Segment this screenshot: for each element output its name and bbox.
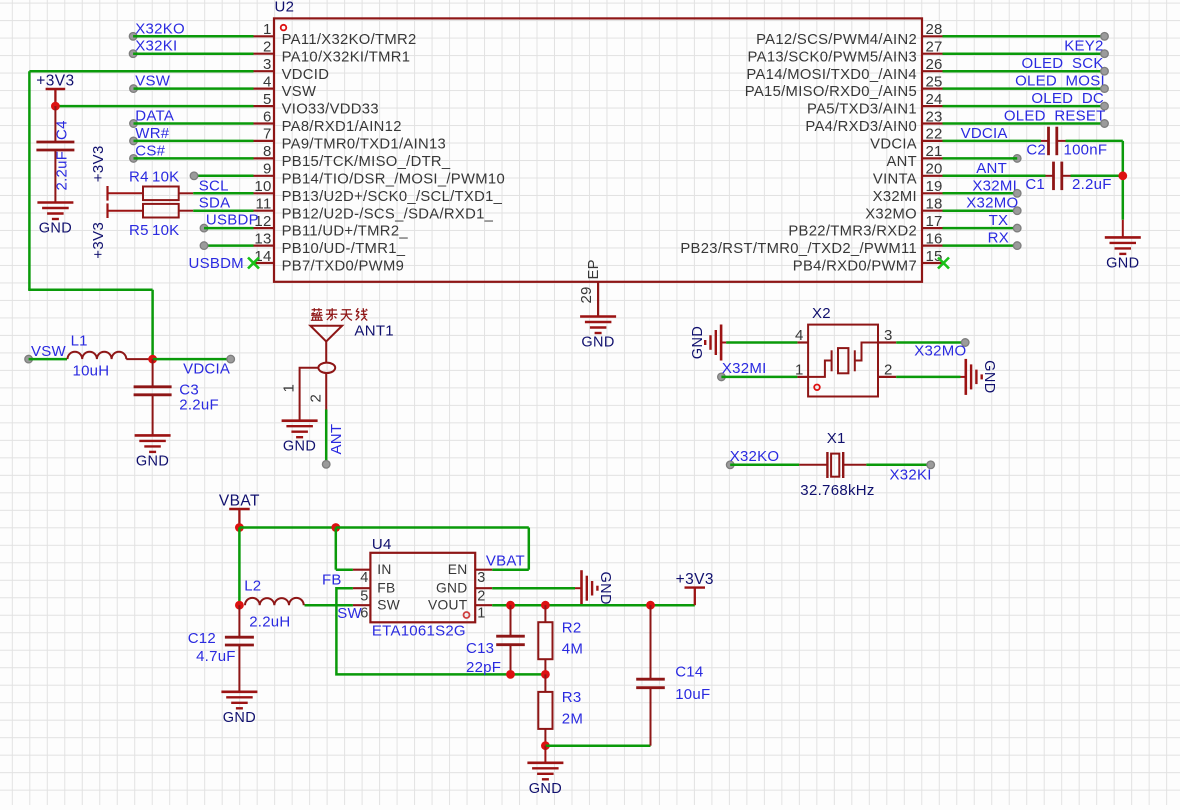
svg-text:FB: FB [377,581,395,596]
svg-text:15: 15 [926,248,943,265]
svg-text:10K: 10K [152,222,179,239]
wire R4 to pin10 [193,192,253,195]
wire R3 bottom to C14 [545,744,650,747]
inductor L2 2.2uH [244,578,304,631]
svg-text:X32MI: X32MI [722,360,767,377]
svg-text:29: 29 [578,286,595,303]
node pin24 end [1101,102,1109,110]
ground right of X2 [961,359,998,395]
U2 pin 24 (PA5/TXD3/AIN1) [807,91,943,118]
svg-text:20: 20 [926,161,943,178]
svg-text:2.2uH: 2.2uH [249,614,290,631]
capacitor C12 4.7uF [188,605,254,692]
node pin23 end [1101,120,1109,128]
svg-text:27: 27 [926,39,943,56]
svg-text:ANT1: ANT1 [354,323,394,340]
svg-text:C14: C14 [675,664,703,681]
svg-text:PA15/MISO/RXD0_/AIN5: PA15/MISO/RXD0_/AIN5 [745,84,917,100]
svg-text:X32MO: X32MO [865,206,917,222]
svg-text:X2: X2 [812,305,831,322]
IC U2 body [274,18,922,281]
power flag +3V3 top-left [36,73,74,107]
wire pin24 [943,105,1105,108]
ground at C4 [37,203,73,237]
power flag +3V3 bottom right [676,571,714,605]
svg-text:17: 17 [926,213,943,230]
svg-text:U4: U4 [372,536,392,553]
ground at ANT1 [282,421,318,455]
svg-text:KEY2: KEY2 [1064,38,1103,55]
svg-text:26: 26 [926,56,943,73]
svg-text:GND: GND [39,221,72,237]
svg-text:32.768kHz: 32.768kHz [800,482,874,499]
net label VSW (L1 input) [25,343,67,363]
svg-text:5: 5 [263,91,272,108]
wire rail bottom horizontal [28,289,152,292]
wire X2 pin3 to X32MO [896,341,965,344]
wire pin21 [943,157,1018,160]
U2 pin 18 (X32MO) [865,196,942,223]
U2 pin 23 (PA4/RXD3/AIN0) [805,108,942,135]
wire SW from L2 [305,604,353,607]
junction VDCIA node [148,355,157,364]
U2 pin 7 (PA9/TMR0/TXD1/AIN13) [254,126,447,153]
U2 pin 13 (PB10/UD-/TMR1_) [254,230,406,257]
wire pin18 [943,209,1018,212]
capacitor C13 22pF [466,605,525,676]
svg-text:100nF: 100nF [1064,142,1108,159]
ground at C12 [221,692,257,726]
svg-text:PA12/SCS/PWM4/AIN2: PA12/SCS/PWM4/AIN2 [756,32,917,48]
net label DATA (pin 6) [130,108,174,128]
wire pin23 [943,122,1105,125]
svg-text:GND: GND [981,360,997,393]
capacitor C2 100nF [1026,127,1107,159]
crystal X2 [808,325,878,397]
svg-text:X32MO: X32MO [966,195,1018,212]
svg-text:L1: L1 [71,333,88,350]
svg-text:23: 23 [926,108,943,125]
U2 pin 9 (PB14/TIO/DSR_/MOSI_/PWM10) [254,161,506,188]
svg-text:R4: R4 [129,168,149,185]
wire pin7 [134,140,254,143]
ground at R3/C14 [527,746,563,797]
svg-text:OLED_RESET: OLED_RESET [1004,108,1106,125]
no-connect X at pin 14 [248,258,259,269]
svg-text:PB10/UD-/TMR1_: PB10/UD-/TMR1_ [282,241,406,257]
svg-text:X32KO: X32KO [135,20,185,37]
wire ANT [325,410,328,465]
svg-text:3: 3 [263,56,272,73]
U4 pin 1 (VOUT) [428,598,492,622]
wire gnd rail vertical [1122,141,1125,220]
node pin17 end [1013,224,1021,232]
ground left of X2 [690,325,726,361]
wire pin27 [943,52,1105,55]
wire pin16 [943,244,1018,247]
wire pin8 [134,157,254,160]
svg-text:6: 6 [263,108,272,125]
U2 pin 27 (PA13/SCK0/PWM5/AIN3) [748,39,943,66]
wire pin20 to C1 [943,175,1046,178]
svg-text:USBDM: USBDM [189,255,244,272]
svg-text:2: 2 [477,588,485,604]
node pin25 end [1101,85,1109,93]
junction L2/C12 [235,601,244,610]
power flag VBAT [219,493,260,528]
svg-text:VBAT: VBAT [486,553,525,570]
U2 pin 11 (PB12/U2D-/SCS_/SDA/RXD1_) [254,196,494,223]
wire EN stub [492,568,529,571]
resistor R5 [129,204,193,239]
U2 pin 29 (EP) [578,259,602,316]
junction at +3V3/C4 [51,102,60,111]
svg-text:4.7uF: 4.7uF [196,648,236,665]
wire C2 to gnd rail [1066,140,1123,143]
svg-text:GND: GND [529,781,562,797]
power flag +3V3 at R4 [90,145,143,200]
svg-text:PB14/TIO/DSR_/MOSI_/PWM10: PB14/TIO/DSR_/MOSI_/PWM10 [282,171,505,187]
svg-text:PA9/TMR0/TXD1/AIN13: PA9/TMR0/TXD1/AIN13 [282,137,447,153]
wire EN corner down [528,528,531,570]
resistor R2 4M [538,605,583,674]
wire pin26 [943,70,1105,73]
node pin19 end [1013,190,1021,198]
svg-text:GND: GND [436,581,468,596]
svg-text:X32KI: X32KI [135,38,177,55]
svg-text:10K: 10K [152,168,179,185]
power flag +3V3 at R5 [90,203,143,258]
wire VBAT down to L2 [238,528,241,606]
svg-text:4M: 4M [562,641,583,658]
capacitor C1 2.2uF [1025,162,1111,193]
U2 pin 14 (PB7/TXD0/PWM9) [254,248,405,275]
U2 pin 21 (ANT) [886,143,942,170]
wire X1 to X32KI [866,464,930,467]
svg-text:CS#: CS# [135,142,165,159]
svg-text:PA5/TXD3/AIN1: PA5/TXD3/AIN1 [807,102,917,118]
X2 pin 2 [878,362,896,379]
junction R2 top [541,601,550,610]
svg-text:VINTA: VINTA [873,171,917,187]
svg-text:13: 13 [254,230,271,247]
wire VOUT row [492,604,695,607]
junction C1/gnd rail [1118,171,1127,180]
svg-text:C1: C1 [1025,176,1045,193]
junction C14 top [646,601,655,610]
U2 pin 2 (PA10/X32KI/TMR1) [254,39,411,66]
svg-text:24: 24 [926,91,943,108]
svg-text:5: 5 [360,588,368,604]
antenna ANT1 (Bluetooth) [310,326,342,373]
svg-text:X32MI: X32MI [972,177,1017,194]
U4 pin 4 (IN) [353,562,392,586]
wire X2 pin1 [721,376,797,379]
wire IN vertical [335,528,338,570]
U2 pin 19 (X32MI) [873,178,943,205]
svg-text:GND: GND [597,571,613,604]
svg-text:FB: FB [322,572,342,589]
net label VSW (pin 4) [130,73,171,93]
svg-text:GND: GND [581,335,614,351]
inductor L1 10uH [68,333,153,380]
wire pin25 [943,87,1105,90]
svg-text:21: 21 [926,143,943,160]
svg-text:U2: U2 [275,0,295,16]
wire pin9 stub [194,175,254,178]
svg-text:2: 2 [307,394,324,403]
svg-text:18: 18 [926,196,943,213]
U2 pin 26 (PA14/MOSI/TXD0_/AIN4) [746,56,942,83]
svg-text:VIO33/VDD33: VIO33/VDD33 [282,102,379,118]
svg-text:10uH: 10uH [73,363,110,380]
svg-text:9: 9 [263,161,272,178]
no-connect X at pin 15 [938,258,949,269]
wire pin17 [943,227,1018,230]
svg-text:C2: C2 [1026,142,1046,159]
svg-text:C4: C4 [54,120,71,140]
wire pin5 VIO33 [55,105,253,108]
svg-text:VSW: VSW [31,343,67,360]
svg-text:GND: GND [690,326,706,359]
svg-text:25: 25 [926,73,943,90]
junction C13 bottom [506,670,515,679]
svg-text:ETA1061S2G: ETA1061S2G [372,623,466,640]
svg-text:VSW: VSW [282,84,317,100]
wire pin4 [134,87,254,90]
svg-text:X32MO: X32MO [914,343,966,360]
wire +3V3 rail vertical [28,71,31,290]
wire R5 to pin11 [193,209,253,212]
svg-text:SDA: SDA [199,195,231,212]
U2 pin 6 (PA8/RXD1/AIN12) [254,108,402,135]
svg-text:PA8/RXD1/AIN12: PA8/RXD1/AIN12 [282,119,402,135]
wire pin19 [943,192,1018,195]
IC U4 regulator body [370,553,475,623]
svg-text:R3: R3 [562,689,582,706]
U2 pin 16 (PB23/RST/TMR0_/TXD2_/PWM11) [680,230,942,257]
net label X32KI (pin 2) [129,38,177,58]
U2 pin 25 (PA15/MISO/RXD0_/AIN5) [745,73,943,100]
svg-text:RX: RX [988,230,1009,247]
net label ANT (antenna) [322,424,345,468]
wire VSW to L1 [29,358,67,361]
svg-text:PB22/TMR3/RXD2: PB22/TMR3/RXD2 [788,224,917,240]
svg-text:PA13/SCK0/PWM5/AIN3: PA13/SCK0/PWM5/AIN3 [748,49,917,65]
U4 pin-1 mark [464,612,470,618]
U2 pin 28 (PA12/SCS/PWM4/AIN2) [756,21,943,48]
svg-text:VDCIA: VDCIA [961,125,1008,142]
wire pin22 to C2 [943,140,1042,143]
net label VDCIA [183,355,234,377]
svg-text:PB23/RST/TMR0_/TXD2_/PWM11: PB23/RST/TMR0_/TXD2_/PWM11 [680,241,917,257]
wire IN horizontal [336,568,353,571]
svg-text:X32KO: X32KO [730,448,780,465]
svg-text:14: 14 [254,248,271,265]
net label CS# (pin 8) [130,142,166,162]
svg-text:1: 1 [263,21,272,38]
node pin28 end [1101,33,1109,41]
svg-text:4: 4 [263,73,272,90]
node pin13 end [200,242,208,250]
svg-text:PA4/RXD3/AIN0: PA4/RXD3/AIN0 [805,119,917,135]
node pin26 end [1101,67,1109,75]
U4 pin 6 (SW) [353,598,400,622]
wire FB net [336,588,545,674]
wire C1 to gnd rail [1071,175,1123,178]
node pin18 end [1013,207,1021,215]
svg-text:OLED_MOSI: OLED_MOSI [1015,73,1105,90]
svg-text:2: 2 [263,39,272,56]
ANT1 pin 2 [307,373,326,410]
svg-text:L2: L2 [244,578,261,595]
svg-text:PB4/RXD0/PWM7: PB4/RXD0/PWM7 [793,259,917,275]
svg-text:10uF: 10uF [675,686,710,703]
svg-text:X32MI: X32MI [873,189,917,205]
svg-text:PB13/U2D+/SCK0_/SCL/TXD1_: PB13/U2D+/SCK0_/SCL/TXD1_ [282,189,503,205]
net label X32MO (X2 pin 3) [914,339,969,360]
svg-text:ANT: ANT [886,154,917,170]
svg-text:10: 10 [254,178,271,195]
svg-text:28: 28 [926,21,943,38]
svg-text:2.2uF: 2.2uF [179,397,219,414]
U2 pin 20 (VINTA) [873,161,943,188]
X2 pin 1 [795,362,808,379]
svg-text:PA11/X32KO/TMR2: PA11/X32KO/TMR2 [282,32,417,48]
node pin16 end [1013,242,1021,250]
junction R2/R3 [541,670,550,679]
svg-text:SW: SW [337,605,362,622]
svg-text:8: 8 [263,143,272,160]
svg-text:GND: GND [223,710,256,726]
wire X2 pin2 to gnd [896,376,960,379]
U4 pin 3 (EN) [448,562,492,586]
svg-text:2.2uF: 2.2uF [54,151,71,191]
ANT1 pin 1 to ground [281,368,319,421]
svg-text:1: 1 [477,605,485,621]
svg-text:EN: EN [448,562,468,577]
svg-text:VSW: VSW [135,73,171,90]
wire X32KO to X1 [730,464,799,467]
resistor R4 [129,168,193,200]
svg-text:PB12/U2D-/SCS_/SDA/RXD1_: PB12/U2D-/SCS_/SDA/RXD1_ [282,206,494,222]
X2 pin 4 [795,327,808,344]
wire pin12 [204,227,254,230]
svg-text:+3V3: +3V3 [676,571,714,588]
svg-text:3: 3 [477,570,485,586]
junction R3 bottom [541,741,550,750]
wire X2 pin4 to gnd [726,341,797,344]
svg-text:1: 1 [281,384,298,393]
svg-text:PB11/UD+/TMR2_: PB11/UD+/TMR2_ [282,224,409,240]
X2 pin 3 [878,327,896,344]
capacitor C4 [36,106,74,202]
svg-text:7: 7 [263,126,272,143]
svg-text:DATA: DATA [135,108,174,125]
svg-text:2M: 2M [562,710,583,727]
U2 pin 4 (VSW) [254,73,317,100]
svg-text:C12: C12 [188,630,216,647]
net label WR# (pin 7) [130,125,170,145]
ground at U4 pin 2 [575,570,613,606]
svg-text:OLED_SCK: OLED_SCK [1022,55,1104,72]
svg-text:EP: EP [586,259,602,279]
svg-text:22: 22 [926,126,943,143]
svg-text:USBDP: USBDP [206,212,259,229]
junction C13 top [506,601,515,610]
svg-text:4: 4 [360,570,368,586]
svg-text:PB7/TXD0/PWM9: PB7/TXD0/PWM9 [282,259,405,275]
wire pin28 [943,35,1105,38]
wire GND pin2 [492,587,575,590]
wire VDCIA node to label [153,358,231,361]
svg-text:SW: SW [377,598,400,613]
U2 pin 17 (PB22/TMR3/RXD2) [788,213,942,240]
svg-text:19: 19 [926,178,943,195]
net label USBDP (pin 12) [200,212,259,232]
svg-text:GND: GND [136,453,169,469]
U2 pin 22 (VDCIA) [870,126,942,153]
U2 pin 15 (PB4/RXD0/PWM7) [793,248,943,275]
svg-text:+3V3: +3V3 [90,145,107,182]
net label X32KO (pin 1) [129,20,185,40]
U2 pin 12 (PB11/UD+/TMR2_) [254,213,409,240]
U2 pin 3 (VDCID) [254,56,330,83]
svg-text:X32KI: X32KI [890,467,932,484]
net label X32KI (X1 right) [890,461,935,484]
svg-text:TX: TX [989,212,1009,229]
U2 pin 1 (PA11/X32KO/TMR2) [254,21,417,48]
wire rail down to VDCIA node [151,290,154,359]
U4 pin 2 (GND) [436,581,492,605]
svg-text:VDCIA: VDCIA [183,361,230,378]
svg-text:VOUT: VOUT [428,598,468,613]
svg-text:R5: R5 [129,222,149,239]
junction IN node [331,523,340,532]
svg-text:PA10/X32KI/TMR1: PA10/X32KI/TMR1 [282,49,411,65]
svg-text:GND: GND [283,439,316,455]
wire VBAT top to EN corner [336,526,529,529]
capacitor C3 2.2uF [134,359,219,435]
svg-text:ANT: ANT [328,424,345,455]
node pin9 end [190,172,198,180]
net label X32MI (X2 pin 1) [718,360,767,381]
svg-text:C13: C13 [466,640,494,657]
resistor R3 2M [538,674,583,745]
svg-text:2.2uF: 2.2uF [1072,176,1112,193]
net label X32KO (X1 left) [726,448,779,469]
svg-text:IN: IN [377,562,391,577]
svg-text:11: 11 [256,196,272,213]
svg-text:16: 16 [926,230,943,247]
U2 pin 8 (PB15/TCK/MISO_/DTR_) [254,143,451,170]
svg-text:PB15/TCK/MISO_/DTR_: PB15/TCK/MISO_/DTR_ [282,154,451,170]
svg-text:PA14/MOSI/TXD0_/AIN4: PA14/MOSI/TXD0_/AIN4 [746,67,917,83]
svg-text:SCL: SCL [199,177,229,194]
capacitor C14 10uF [636,605,710,746]
svg-text:+3V3: +3V3 [36,73,74,90]
junction VBAT node [235,523,244,532]
crystal X1 32.768kHz [799,452,866,478]
wire VBAT to IN node [239,526,335,529]
ground right rail [1105,220,1141,272]
svg-text:GND: GND [1106,255,1139,271]
svg-text:X1: X1 [827,430,846,447]
svg-text:VDCID: VDCID [282,67,330,83]
svg-text:2: 2 [884,362,893,379]
svg-text:+3V3: +3V3 [90,222,107,259]
U2 pin 10 (PB13/U2D+/SCK0_/SCL/TXD1_) [254,178,503,205]
